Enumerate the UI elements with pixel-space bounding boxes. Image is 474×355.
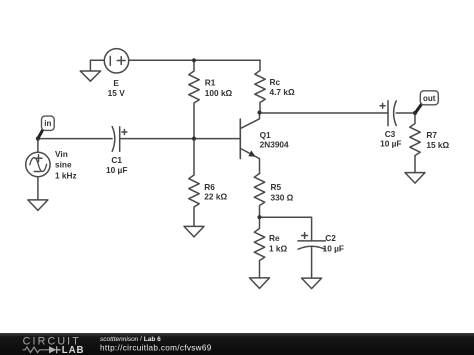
svg-text:scotttennison / Lab 6: scotttennison / Lab 6	[100, 335, 161, 342]
svg-text:Rc: Rc	[270, 77, 281, 87]
svg-text:R6: R6	[204, 182, 215, 192]
svg-text:Vin: Vin	[55, 149, 68, 159]
svg-text:15 kΩ: 15 kΩ	[426, 140, 449, 150]
svg-text:R7: R7	[426, 130, 437, 140]
svg-text:R5: R5	[271, 182, 282, 192]
svg-text:http://circuitlab.com/cfvsw69: http://circuitlab.com/cfvsw69	[100, 344, 212, 353]
svg-text:LAB: LAB	[62, 345, 85, 355]
svg-text:100 kΩ: 100 kΩ	[205, 88, 233, 98]
svg-text:C2: C2	[325, 233, 336, 243]
svg-text:22 kΩ: 22 kΩ	[204, 192, 227, 202]
svg-text:1 kHz: 1 kHz	[55, 170, 77, 180]
svg-text:C1: C1	[111, 155, 122, 165]
svg-text:330 Ω: 330 Ω	[271, 192, 294, 202]
svg-text:R1: R1	[205, 78, 216, 88]
svg-text:10 µF: 10 µF	[323, 243, 344, 253]
svg-text:10 µF: 10 µF	[380, 139, 401, 149]
svg-text:Re: Re	[269, 233, 280, 243]
svg-text:Q1: Q1	[260, 130, 271, 140]
svg-text:2N3904: 2N3904	[260, 140, 289, 150]
svg-text:1 kΩ: 1 kΩ	[269, 244, 288, 254]
svg-text:E: E	[113, 78, 119, 88]
svg-text:4.7 kΩ: 4.7 kΩ	[270, 87, 295, 97]
svg-text:out: out	[423, 94, 436, 103]
svg-text:15 V: 15 V	[108, 88, 126, 98]
svg-text:in: in	[44, 119, 51, 128]
svg-text:sine: sine	[55, 160, 72, 170]
svg-text:10 µF: 10 µF	[106, 165, 127, 175]
